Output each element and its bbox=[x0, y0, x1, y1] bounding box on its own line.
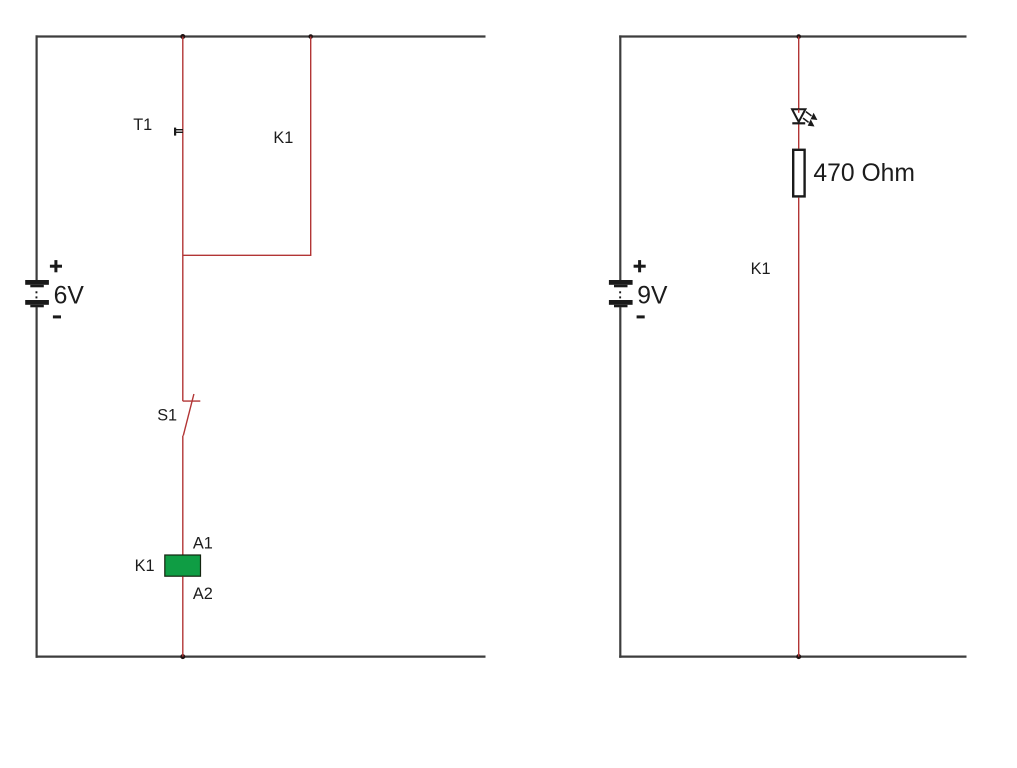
svg-text:K1: K1 bbox=[135, 557, 155, 575]
svg-text:470 Ohm: 470 Ohm bbox=[813, 160, 915, 187]
battery B1 6V: top plate wide bar bbox=[25, 280, 49, 285]
wire: left circuit bottom rail bbox=[36, 655, 486, 657]
wire: red vertical from top rail to resistor through LED D1 bbox=[798, 37, 800, 149]
wire: left circuit top rail bbox=[36, 35, 486, 37]
battery B2 minus sign bbox=[637, 315, 645, 318]
svg-text:S1: S1 bbox=[157, 407, 177, 425]
contact T1 symbol: lower tick bbox=[176, 132, 183, 133]
battery B2 plus sign bbox=[634, 260, 646, 272]
switch S1: fixed contact bar bbox=[183, 400, 201, 402]
wire: left circuit left rail upper segment bbox=[35, 35, 37, 280]
battery B2 9V: bottom plate narrow bar bbox=[614, 305, 628, 308]
wire: right circuit left rail lower segment bbox=[619, 307, 621, 658]
battery B1 6V: bottom plate wide bar bbox=[25, 300, 49, 305]
node: junction dot right circuit bottom rail bbox=[796, 654, 801, 659]
svg-text:A1: A1 bbox=[193, 535, 213, 553]
contact T1 symbol: upper tick bbox=[176, 129, 183, 130]
battery B2 9V: dotted cell separator dot 2 bbox=[619, 296, 621, 298]
wire: red vertical from switch S1 to coil K1 bbox=[182, 436, 184, 555]
LED D1: cathode bar bbox=[792, 122, 805, 124]
svg-text:6V: 6V bbox=[54, 283, 85, 310]
battery B1 6V: dotted cell separator dot 2 bbox=[36, 296, 38, 298]
wire: red vertical from resistor R1 to bottom rail bbox=[798, 198, 800, 657]
svg-text:T1: T1 bbox=[133, 116, 152, 134]
switch S1: lever bbox=[183, 394, 194, 436]
relay coil K1 green body bbox=[165, 555, 201, 576]
LED D1: triangle bbox=[792, 109, 805, 122]
node: junction dot left rail top / wire T1 branch bbox=[180, 34, 185, 39]
wire: red vertical K1 contact branch from top rail bbox=[310, 37, 312, 256]
battery B1 6V: top plate narrow bar bbox=[30, 285, 44, 288]
svg-text:K1: K1 bbox=[273, 129, 293, 147]
wire: right circuit left rail upper segment bbox=[619, 35, 621, 280]
battery B1 6V: bottom plate narrow bar bbox=[30, 305, 44, 308]
svg-text:K1: K1 bbox=[751, 260, 771, 278]
battery B2 9V: top plate narrow bar bbox=[614, 285, 628, 288]
LED D1: light arrow 1 head bbox=[811, 113, 818, 120]
wire: left circuit left rail lower segment bbox=[35, 307, 37, 658]
wire: red vertical from top rail through T1 down to switch S1 bbox=[182, 37, 184, 402]
node: junction dot top rail / wire K1 branch bbox=[308, 34, 313, 39]
battery B1 6V: dotted cell separator dot 1 bbox=[36, 291, 38, 293]
node: junction dot right circuit top rail bbox=[796, 34, 801, 39]
wire: right circuit bottom rail bbox=[619, 655, 966, 657]
contact T1 symbol: vertical bar bbox=[174, 128, 176, 136]
battery B1 plus sign bbox=[50, 260, 62, 272]
battery B2 9V: bottom plate wide bar bbox=[609, 300, 633, 305]
wire: red horizontal joining K1 branch to T1 branch bbox=[183, 254, 312, 256]
resistor R1 body bbox=[793, 150, 804, 197]
LED D1: wire stub inside triangle bbox=[798, 109, 800, 113]
node: junction dot bottom rail bbox=[180, 654, 185, 659]
LED D1: light arrow 2 shaft bbox=[803, 118, 809, 122]
svg-text:9V: 9V bbox=[637, 283, 668, 310]
wire: right circuit top rail bbox=[619, 35, 966, 37]
wire: red vertical from coil K1 to bottom rail bbox=[182, 577, 184, 657]
battery B2 9V: dotted cell separator dot 1 bbox=[619, 291, 621, 293]
svg-text:A2: A2 bbox=[193, 585, 213, 603]
LED D1: light arrow 2 head bbox=[808, 119, 815, 126]
battery B2 9V: top plate wide bar bbox=[609, 280, 633, 285]
LED D1: light arrow 1 shaft bbox=[806, 112, 812, 116]
battery B1 minus sign bbox=[53, 315, 61, 318]
